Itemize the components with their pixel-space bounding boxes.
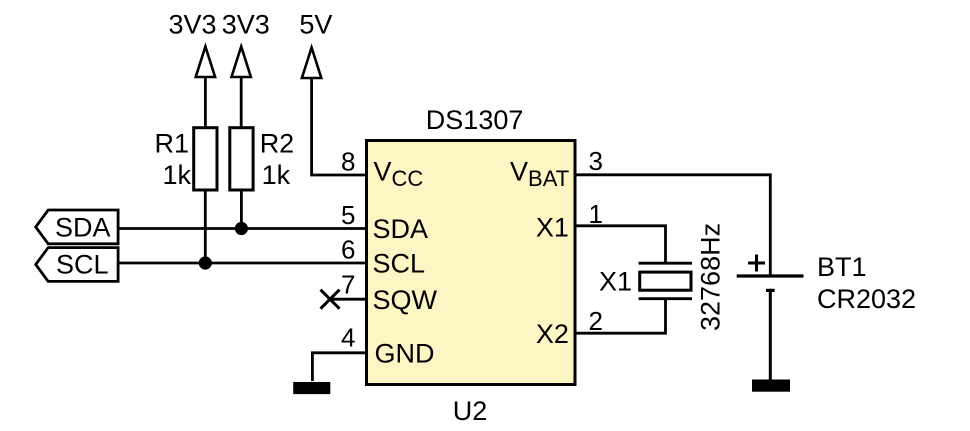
svg-text:5V: 5V bbox=[299, 10, 332, 40]
battery BT1 plus sign bbox=[748, 255, 765, 272]
svg-text:SCL: SCL bbox=[56, 250, 109, 280]
svg-text:32768Hz: 32768Hz bbox=[696, 223, 726, 331]
svg-text:8: 8 bbox=[341, 147, 355, 177]
crystal X1 bottom plate bbox=[639, 297, 693, 300]
svg-text:3V3: 3V3 bbox=[168, 10, 216, 40]
op IC U2 DS1307 body bbox=[367, 141, 576, 385]
svg-text:2: 2 bbox=[589, 306, 603, 336]
svg-text:SDA: SDA bbox=[55, 213, 111, 243]
pin 4 wire to ground bbox=[312, 353, 365, 381]
ground symbol (battery) bbox=[752, 380, 790, 392]
crystal X1 body bbox=[640, 272, 691, 290]
power arrow 3V3 #2 bbox=[232, 47, 251, 78]
svg-text:R2: R2 bbox=[260, 129, 295, 159]
port flag SCL bbox=[36, 248, 118, 282]
wire 3V3 arrow to R2 bbox=[240, 77, 243, 127]
wire battery to ground bbox=[769, 289, 772, 381]
no-connect cross SQW bbox=[321, 290, 340, 309]
svg-text:X1: X1 bbox=[599, 267, 632, 297]
svg-text:X1: X1 bbox=[536, 213, 569, 243]
wire 5V arrow to pin 8 VCC bbox=[312, 78, 365, 175]
svg-text:6: 6 bbox=[341, 235, 355, 265]
svg-text:4: 4 bbox=[341, 322, 355, 352]
svg-text:DS1307: DS1307 bbox=[426, 105, 524, 135]
wire R2 bottom to SDA net bbox=[240, 190, 243, 229]
svg-text:7: 7 bbox=[341, 270, 355, 300]
ground symbol (U2) bbox=[293, 382, 330, 394]
port flag SDA bbox=[36, 210, 118, 244]
resistor R1 bbox=[194, 128, 217, 190]
svg-text:3: 3 bbox=[589, 146, 603, 176]
svg-text:BT1: BT1 bbox=[817, 252, 867, 282]
wire SCL net bbox=[118, 262, 365, 265]
power arrow 3V3 #1 bbox=[196, 47, 215, 78]
power arrow 5V bbox=[302, 48, 321, 79]
svg-text:SDA: SDA bbox=[373, 214, 429, 244]
resistor R2 bbox=[230, 128, 253, 190]
svg-text:CR2032: CR2032 bbox=[817, 284, 916, 314]
svg-text:GND: GND bbox=[375, 339, 435, 369]
svg-text:1k: 1k bbox=[162, 160, 191, 190]
svg-text:SQW: SQW bbox=[373, 285, 438, 315]
svg-text:SCL: SCL bbox=[373, 249, 426, 279]
svg-text:3V3: 3V3 bbox=[222, 10, 270, 40]
junction SCL/R1 bbox=[199, 256, 212, 269]
pin 7 stub wire bbox=[330, 298, 365, 301]
wire pin 2 to crystal bottom bbox=[576, 299, 666, 333]
svg-text:X2: X2 bbox=[536, 319, 569, 349]
wire SDA net bbox=[118, 227, 365, 230]
svg-text:R1: R1 bbox=[154, 129, 189, 159]
crystal X1 top plate bbox=[639, 262, 693, 265]
svg-text:U2: U2 bbox=[453, 396, 488, 426]
wire pin 3 to battery bbox=[576, 175, 771, 276]
wire R1 bottom to SCL net bbox=[204, 190, 207, 263]
svg-text:5: 5 bbox=[341, 200, 355, 230]
svg-text:1k: 1k bbox=[262, 160, 291, 190]
wire 3V3 arrow to R1 bbox=[204, 77, 207, 127]
junction SDA/R2 bbox=[235, 222, 248, 235]
battery BT1 negative plate bbox=[766, 289, 775, 292]
wire pin 1 to crystal top bbox=[576, 226, 666, 263]
battery BT1 positive plate bbox=[737, 274, 804, 277]
